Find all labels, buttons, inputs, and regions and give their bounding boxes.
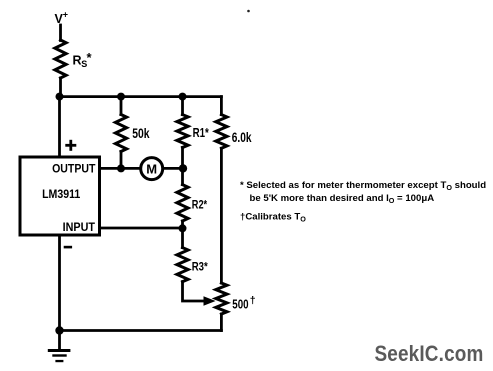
node: output / 50k junction — [117, 164, 125, 172]
svg-text:OUTPUT: OUTPUT — [52, 163, 95, 176]
wire 50k top lead — [120, 97, 123, 115]
resistor Rs — [55, 40, 66, 78]
svg-text:R1*: R1* — [193, 127, 210, 141]
label + (pin polarity) — [65, 140, 76, 151]
wire R3 top lead — [181, 228, 184, 247]
wire INPUT line — [101, 227, 183, 230]
wire bottom bus — [60, 329, 222, 332]
svg-text:6.0k: 6.0k — [232, 130, 252, 146]
node: input / R2 / R3 junction — [179, 224, 187, 232]
svg-text:R3*: R3* — [192, 261, 209, 274]
wire top bus — [60, 95, 222, 98]
wire R2 top lead — [181, 168, 184, 184]
resistor R3 — [177, 248, 188, 282]
wire Rs to bus — [59, 78, 62, 97]
svg-text:R: R — [73, 54, 82, 68]
wire right column to pot — [220, 148, 223, 283]
wire R1 top lead — [181, 97, 184, 115]
node: ground junction — [55, 326, 63, 334]
svg-text:be 5'K more than desired and I: be 5'K more than desired and IO = 100μA — [250, 193, 435, 205]
label - (pin polarity) — [64, 246, 72, 249]
svg-text:INPUT: INPUT — [63, 221, 95, 234]
label Rs* — [73, 50, 93, 69]
wire R2 bottom lead — [181, 221, 184, 228]
wire R1 bottom lead — [181, 148, 184, 169]
node: output / R1 / R2 junction — [179, 164, 187, 172]
node: bus / 50k junction — [117, 93, 125, 101]
svg-text:50k: 50k — [132, 126, 149, 142]
svg-text:M: M — [146, 161, 157, 176]
wire V+ lead — [59, 25, 62, 41]
meter M1 — [141, 158, 163, 180]
node: bus / Rs junction — [56, 93, 64, 101]
node: bus / R1 junction — [179, 93, 187, 101]
resistor R2 — [177, 185, 188, 221]
wire 50k bottom lead — [120, 152, 123, 169]
note text — [240, 180, 486, 224]
svg-text:+: + — [63, 10, 68, 20]
potentiometer 500 element — [216, 283, 227, 314]
svg-text:†Calibrates TO: †Calibrates TO — [240, 212, 306, 224]
svg-text:†: † — [250, 295, 256, 307]
wire LM3911 - output to ground bus — [58, 236, 61, 331]
wire ground stem — [58, 331, 61, 350]
wire 6.0k top lead — [220, 97, 223, 115]
svg-text:LM3911: LM3911 — [42, 189, 80, 202]
wire R3 to wiper — [183, 282, 205, 301]
resistor 50k — [115, 115, 126, 152]
resistor R1 — [177, 115, 188, 148]
wire pot bottom lead — [220, 314, 223, 331]
resistor 6.0k — [216, 115, 227, 149]
pot wiper arrowhead — [204, 296, 216, 305]
ground — [48, 349, 71, 362]
label V+ — [55, 10, 69, 26]
label 500 (dagger) — [232, 295, 256, 312]
svg-text:R2*: R2* — [192, 200, 208, 212]
svg-text:SeekIC.com: SeekIC.com — [375, 342, 484, 367]
IC U1 LM3911 — [20, 157, 100, 235]
wire OUTPUT line — [101, 167, 183, 170]
svg-text:500: 500 — [232, 298, 248, 312]
wire bus to LM3911 + input — [58, 97, 61, 157]
speck artifact — [247, 10, 250, 13]
